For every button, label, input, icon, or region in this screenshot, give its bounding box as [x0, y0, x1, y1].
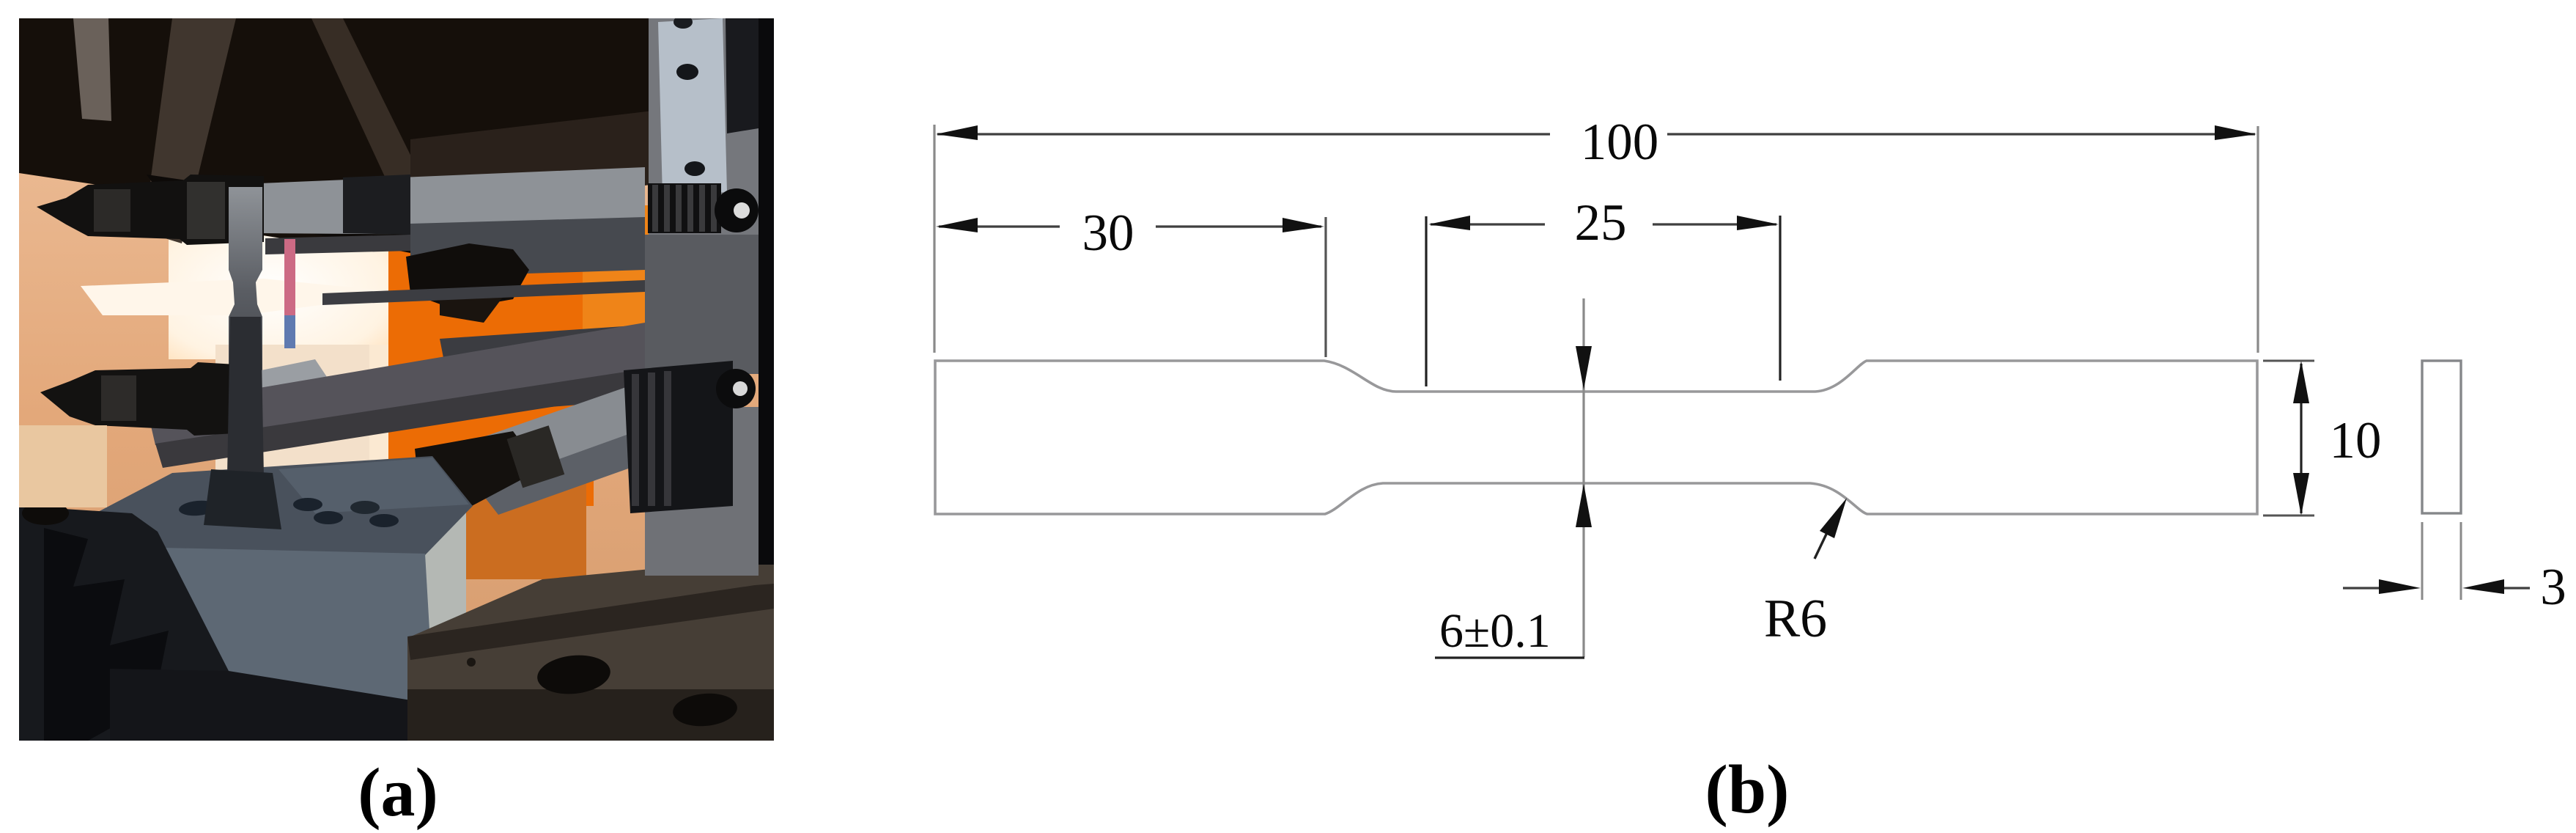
arrowhead 30 right — [1283, 218, 1324, 232]
right column — [649, 18, 759, 238]
orange panel center — [388, 213, 594, 506]
lower orange region — [440, 469, 586, 579]
svg-text:25: 25 — [1575, 194, 1627, 252]
specimen foot — [211, 478, 278, 506]
tick top (10) — [2263, 360, 2314, 362]
extension line right (100) — [2256, 126, 2259, 353]
upper left grip bolt — [37, 175, 264, 245]
base block left dark wedge — [19, 506, 229, 741]
PHOTO PANEL (a) — [19, 15, 774, 741]
svg-text:3: 3 — [2540, 559, 2566, 616]
arrowhead 3 right — [2462, 579, 2504, 594]
svg-text:R6: R6 — [1764, 589, 1827, 649]
arrowhead 100 left — [936, 125, 978, 140]
top right bracket plate — [658, 18, 727, 197]
dimension line 25 — [1431, 223, 1776, 225]
head lower jaw — [147, 175, 410, 253]
extension line left (3) — [2421, 522, 2424, 600]
specimen lower segment over beam — [227, 317, 264, 477]
head fin highlight 1 — [73, 18, 111, 121]
bottom dark strip under base — [110, 669, 434, 741]
wall background — [19, 18, 774, 741]
upper arm grip block — [343, 175, 410, 235]
arrowhead 100 right — [2215, 125, 2256, 140]
dark hole on wall left — [22, 502, 69, 525]
shadow under head right — [410, 110, 660, 220]
arrowhead R6 — [1820, 498, 1847, 538]
cross-section rectangle — [2422, 361, 2461, 513]
upper arm grey beam — [260, 167, 645, 236]
extension line left (25) — [1425, 216, 1427, 386]
arrowhead 25 right — [1737, 216, 1779, 230]
bright backlit white region — [169, 220, 396, 359]
center line 6±0.1 — [1582, 298, 1584, 657]
svg-text:30: 30 — [1082, 205, 1134, 262]
arrowhead 10 top — [2293, 361, 2309, 403]
svg-text:(a): (a) — [358, 755, 438, 831]
lower bracket black — [624, 361, 733, 513]
upper disc cylinder — [715, 188, 759, 232]
left wall repaint lower — [19, 425, 107, 507]
serrated teeth left — [44, 528, 169, 741]
specimen outline — [935, 361, 2257, 514]
arrowhead 6 up — [1576, 484, 1592, 527]
right lower arm beam — [454, 373, 734, 490]
lower disc cylinder — [716, 369, 756, 408]
dimension line 3 left — [2343, 587, 2380, 589]
holes on base top — [178, 499, 218, 517]
pink marker strip — [284, 239, 295, 318]
table holes — [536, 652, 613, 697]
middle arm lower shadow — [155, 369, 645, 468]
base block top face — [95, 456, 473, 555]
light grey corner block — [410, 475, 466, 639]
base block front face — [132, 547, 434, 705]
dimension line 100 — [937, 133, 2255, 135]
svg-text:10: 10 — [2330, 412, 2382, 469]
arrowhead 30 left — [936, 218, 978, 232]
svg-text:100: 100 — [1581, 114, 1659, 171]
middle arm (lower grip) beam top face — [136, 359, 330, 418]
far right dark strip — [759, 18, 774, 565]
lower left grip bolt — [40, 362, 249, 436]
R6 leader arrow — [1815, 525, 1831, 559]
head fin highlight 2 — [144, 18, 236, 243]
upper spring coil — [648, 183, 721, 233]
specimen vertical bar with neck — [229, 187, 262, 485]
white glow under head left — [81, 279, 410, 315]
arrowhead 25 left — [1428, 216, 1470, 230]
dimension line 10 vertical — [2300, 364, 2302, 513]
arrowhead 10 bottom — [2293, 473, 2309, 515]
table bottom right — [407, 557, 774, 741]
leader underline 6±0.1 — [1435, 656, 1584, 658]
specimen foot clamp — [204, 469, 281, 529]
middle arm front face — [147, 323, 645, 445]
svg-text:(b): (b) — [1705, 752, 1790, 828]
svg-text:6±0.1: 6±0.1 — [1439, 604, 1551, 658]
dimension line 30 — [939, 225, 1321, 227]
extension line right (25) — [1779, 216, 1781, 381]
pale wall below white — [215, 345, 369, 480]
machine head dark mass — [19, 18, 774, 243]
dimension line 3 right — [2503, 587, 2530, 589]
black clamp on orange — [406, 243, 529, 309]
extension line left (100/30) — [933, 125, 935, 353]
orange strip right of white — [583, 205, 649, 396]
arrowhead 6 down — [1576, 346, 1592, 389]
thin rod under beam — [265, 235, 410, 254]
black parts right of plate — [726, 18, 759, 133]
extension line right (3) — [2460, 522, 2462, 600]
rails between arms — [322, 280, 645, 305]
arrowhead 3 left — [2379, 579, 2421, 594]
black cone grip lower — [415, 431, 541, 507]
tick bottom (10) — [2263, 515, 2314, 517]
extension line right (30) — [1324, 217, 1326, 357]
head fin highlight 3 — [311, 18, 431, 208]
